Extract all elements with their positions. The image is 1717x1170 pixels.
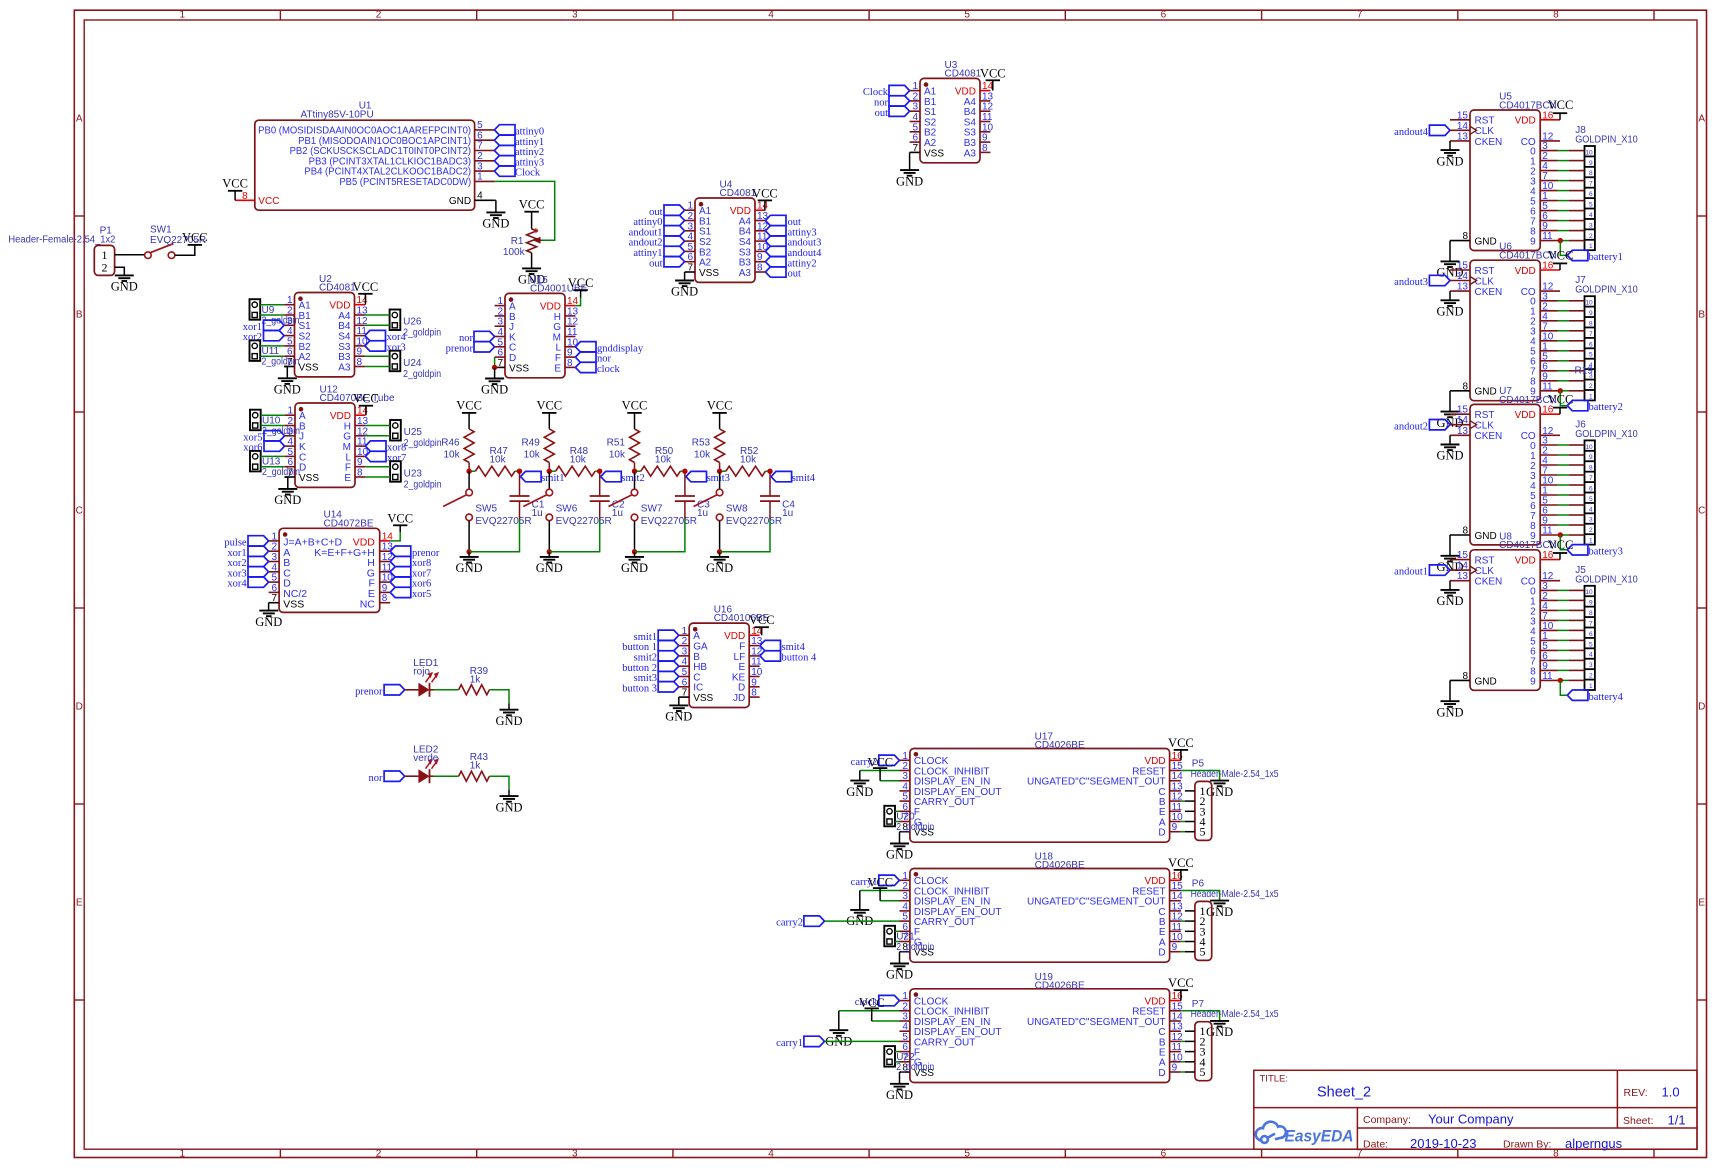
- svg-text:andout1: andout1: [1394, 567, 1428, 578]
- svg-text:U24: U24: [403, 358, 422, 369]
- svg-text:1/1: 1/1: [1668, 1112, 1686, 1127]
- svg-text:GND: GND: [621, 561, 648, 575]
- U6 pin 16 VDD: [1540, 269, 1560, 271]
- U1 pin 3 PB4: [475, 170, 495, 172]
- U1 pin 7 PB2: [475, 150, 495, 152]
- U5 output 1 pin 2 wire to J8: [1540, 160, 1557, 162]
- wire U12 VSS to ground: [285, 477, 288, 489]
- svg-text:battery3: battery3: [1589, 546, 1623, 557]
- svg-text:C: C: [76, 506, 83, 517]
- wire U17 to P5 pin 4: [1181, 821, 1185, 823]
- power VCC U5: [1559, 113, 1561, 120]
- svg-text:R53: R53: [692, 438, 711, 449]
- net flag xor6: [264, 441, 285, 451]
- svg-text:GND: GND: [706, 561, 733, 575]
- svg-text:CKEN: CKEN: [1475, 577, 1503, 588]
- net flag andout1: [1429, 565, 1450, 575]
- ground U19 RESET: [1210, 1020, 1229, 1022]
- junction node B: [597, 469, 602, 474]
- svg-text:GOLDPIN_X10: GOLDPIN_X10: [1575, 574, 1638, 585]
- junction gnd: [632, 549, 637, 554]
- svg-text:9: 9: [1589, 310, 1593, 317]
- net flag xor4 U14: [248, 577, 269, 587]
- svg-text:GND: GND: [456, 561, 483, 575]
- U7 output 4 pin 10 wire to J6: [1540, 484, 1557, 486]
- svg-text:VCC: VCC: [1548, 538, 1574, 552]
- svg-text:4: 4: [768, 10, 774, 21]
- svg-text:battery4: battery4: [1589, 692, 1624, 703]
- svg-text:10: 10: [1585, 300, 1593, 307]
- U5 output 7 pin 6 wire to J8: [1540, 220, 1557, 222]
- IC U8 CD4017BCN: [1470, 550, 1540, 691]
- IC U4 CD4081: [695, 198, 755, 282]
- IC U17 CD4026BE: [910, 749, 1170, 843]
- svg-text:8: 8: [751, 688, 757, 699]
- svg-text:Header-Female-2.54_1x2: Header-Female-2.54_1x2: [8, 235, 115, 246]
- power VCC U16: [761, 627, 763, 635]
- svg-text:8: 8: [1462, 381, 1468, 392]
- svg-text:8: 8: [357, 468, 363, 479]
- svg-text:VSS: VSS: [693, 693, 713, 704]
- ground U2: [278, 377, 297, 379]
- U8 output 7 pin 6 wire to J5: [1540, 659, 1557, 661]
- wire U18 RESET to ground: [1181, 891, 1220, 901]
- wire capacitor to ground: [720, 519, 770, 552]
- connector U13 2_goldpin: [250, 451, 261, 472]
- junction battery U7: [1558, 532, 1563, 537]
- svg-text:carry2: carry2: [776, 918, 803, 929]
- svg-text:8: 8: [1553, 1148, 1559, 1159]
- svg-text:3: 3: [1589, 662, 1593, 669]
- svg-text:CD4081: CD4081: [945, 68, 982, 79]
- svg-text:3: 3: [1589, 222, 1593, 229]
- svg-text:13: 13: [1457, 426, 1469, 437]
- svg-text:out: out: [788, 269, 802, 280]
- resistor R53 10k: [715, 429, 725, 463]
- svg-text:5: 5: [1589, 202, 1593, 209]
- ground U19 pin2: [829, 1029, 848, 1031]
- net flag clock: [575, 362, 596, 372]
- IC U16 CD40106BE: [689, 623, 749, 707]
- wire U19 to P7 pin 5: [1181, 1071, 1185, 1073]
- svg-text:VCC: VCC: [1548, 98, 1574, 112]
- IC U12 CD4070BE: [295, 403, 355, 487]
- net flag carry2 U17 clock: [879, 755, 900, 765]
- connector U24 2_goldpin: [390, 351, 401, 372]
- svg-text:Your Company: Your Company: [1428, 1111, 1514, 1126]
- svg-text:6: 6: [1589, 631, 1593, 638]
- net flag attiny0: [494, 125, 515, 135]
- svg-text:15: 15: [1457, 550, 1469, 561]
- svg-text:smit4: smit4: [792, 473, 816, 484]
- net flag attiny3: [494, 156, 515, 166]
- svg-text:D: D: [1158, 828, 1165, 839]
- svg-text:xor2: xor2: [243, 332, 262, 343]
- svg-text:2: 2: [1589, 527, 1593, 534]
- wire U13 to U12: [261, 455, 285, 457]
- net flag Clock: [494, 166, 515, 176]
- svg-text:CLK: CLK: [1475, 276, 1495, 287]
- svg-text:EVQ22705R: EVQ22705R: [556, 516, 612, 527]
- svg-text:8: 8: [1589, 610, 1593, 617]
- svg-text:GND: GND: [886, 1088, 913, 1102]
- wire switch to ground: [719, 521, 721, 552]
- ground U17 pin2: [850, 780, 869, 782]
- U5 output 6 pin 5 wire to J8: [1540, 210, 1557, 212]
- net flag out U3: [889, 106, 910, 116]
- svg-text:10k: 10k: [655, 455, 672, 466]
- wire U17 to P5 pin 5: [1181, 831, 1185, 833]
- svg-text:EVQ22705R: EVQ22705R: [475, 516, 531, 527]
- svg-text:A: A: [1698, 114, 1705, 125]
- power VCC U19 VDD: [1180, 990, 1182, 1000]
- wire U6 pin8 to ground: [1449, 391, 1451, 412]
- U6 output 2 pin 4 wire to J7: [1540, 320, 1557, 322]
- U5 pin 14 CLK: [1450, 129, 1470, 131]
- svg-text:prenor: prenor: [446, 343, 474, 354]
- resistor R46 10k: [464, 429, 474, 463]
- svg-text:RST: RST: [1475, 410, 1495, 421]
- svg-text:clock: clock: [597, 364, 620, 375]
- wire U18 VSS to ground: [899, 952, 901, 964]
- svg-text:9: 9: [1172, 1063, 1178, 1074]
- net flag smit1 U16: [658, 630, 679, 640]
- svg-text:andout2: andout2: [1394, 421, 1428, 432]
- wire U17 RESET to ground: [1181, 771, 1220, 781]
- svg-text:Header-Male-2.54_1x5: Header-Male-2.54_1x5: [1191, 1009, 1279, 1020]
- wire P1 pin1 to SW1: [115, 254, 145, 256]
- ground U8 CKEN: [1441, 589, 1460, 591]
- svg-text:7: 7: [1589, 475, 1593, 482]
- svg-text:Header-Male-2.54_1x5: Header-Male-2.54_1x5: [1191, 769, 1279, 780]
- wire U15 VDD to VCC: [575, 298, 580, 306]
- net flag xor1: [264, 320, 285, 330]
- U5 pin 13 CKEN: [1450, 140, 1470, 142]
- wire carry out: [825, 1040, 900, 1042]
- svg-text:7: 7: [1589, 331, 1593, 338]
- ground cell 2: [540, 556, 559, 558]
- ground U3: [900, 169, 919, 171]
- wire U19 to P7 pin 4: [1181, 1061, 1185, 1063]
- svg-text:6: 6: [1589, 341, 1593, 348]
- U6 output 0 pin 3 wire to J7: [1540, 300, 1557, 302]
- net flag clock U19 clock: [879, 995, 900, 1005]
- net flag smit1: [521, 471, 542, 481]
- net flag smit4: [771, 471, 792, 481]
- wire U9 to U2: [260, 304, 284, 306]
- svg-text:7: 7: [1357, 10, 1363, 21]
- U8 pin 13 CKEN: [1450, 580, 1470, 582]
- wire U14 VSS to ground: [268, 603, 270, 611]
- resistor R51 10k: [630, 429, 640, 463]
- svg-text:1: 1: [1589, 683, 1593, 690]
- U6 output 5 pin 1 wire to J7: [1540, 350, 1557, 352]
- wire U2 to U24: [365, 355, 390, 357]
- svg-text:5: 5: [1200, 825, 1206, 839]
- connector U20 2_goldpin: [884, 806, 895, 827]
- svg-text:9: 9: [1589, 160, 1593, 167]
- svg-text:2: 2: [102, 261, 108, 275]
- svg-text:VSS: VSS: [699, 268, 719, 279]
- svg-text:2_goldpin: 2_goldpin: [896, 1062, 934, 1073]
- wire SW1 to VCC: [175, 245, 195, 255]
- svg-text:GND: GND: [482, 217, 509, 231]
- U8 output 5 pin 1 wire to J5: [1540, 639, 1557, 641]
- connector U21 2_goldpin: [884, 926, 895, 947]
- wire U19 pin2 to ground: [839, 1010, 900, 1012]
- svg-text:GND: GND: [1206, 785, 1233, 799]
- ground cell 3: [625, 556, 644, 558]
- svg-text:E: E: [76, 898, 83, 909]
- ground R1: [522, 267, 541, 269]
- wire LED to resistor: [434, 775, 459, 777]
- U6 output 8 pin 9 wire to J7: [1540, 380, 1557, 382]
- power VCC U18 pin3: [873, 887, 887, 889]
- svg-text:1: 1: [1589, 393, 1593, 400]
- svg-text:UNGATED"C"SEGMENT_OUT: UNGATED"C"SEGMENT_OUT: [1027, 897, 1166, 908]
- U6 pin 14 CLK: [1450, 280, 1470, 282]
- svg-text:2019-10-23: 2019-10-23: [1410, 1136, 1477, 1151]
- net flag andout4 U4 right: [765, 246, 786, 256]
- svg-text:1: 1: [180, 10, 186, 21]
- svg-text:9: 9: [1589, 454, 1593, 461]
- wire U19 to P7 pin 1: [1185, 1030, 1195, 1032]
- wire U1 GND: [494, 199, 496, 201]
- wire U20: [895, 810, 900, 812]
- svg-text:1: 1: [1589, 243, 1593, 250]
- svg-text:5: 5: [1589, 641, 1593, 648]
- net flag attiny1 U4 left: [664, 246, 685, 256]
- svg-text:10k: 10k: [609, 450, 626, 461]
- svg-text:R51: R51: [607, 438, 626, 449]
- svg-text:UNGATED"C"SEGMENT_OUT: UNGATED"C"SEGMENT_OUT: [1027, 777, 1166, 788]
- svg-text:11: 11: [1542, 671, 1553, 682]
- svg-text:GND: GND: [886, 968, 913, 982]
- power VCC U17 pin3: [873, 767, 887, 769]
- svg-text:8: 8: [1462, 671, 1468, 682]
- wire U19 pin3 to VCC: [872, 1020, 900, 1022]
- U7 output 2 pin 4 wire to J6: [1540, 464, 1557, 466]
- svg-text:4: 4: [1589, 652, 1593, 659]
- svg-text:alperngus: alperngus: [1565, 1136, 1623, 1151]
- resistor R50 10k: [635, 470, 641, 472]
- svg-text:5: 5: [1200, 945, 1206, 959]
- svg-text:xor4: xor4: [227, 579, 247, 590]
- IC U5 CD4017BCN: [1470, 110, 1540, 251]
- svg-text:VDD: VDD: [1515, 556, 1536, 567]
- svg-text:10k: 10k: [740, 455, 757, 466]
- wire U16 VSS to ground: [678, 697, 680, 705]
- U8 output 9 pin 11 wire to J5: [1540, 679, 1557, 681]
- svg-text:1u: 1u: [782, 508, 793, 519]
- svg-text:1: 1: [1589, 538, 1593, 545]
- junction gnd: [547, 549, 552, 554]
- svg-text:U26: U26: [403, 317, 422, 328]
- resistor R47 10k: [469, 470, 475, 472]
- ground U14: [259, 610, 278, 612]
- IC U18 CD4026BE: [910, 869, 1170, 963]
- wire U7 pin8 to ground: [1449, 535, 1451, 556]
- junction node B: [517, 469, 522, 474]
- wire switch to ground: [634, 521, 636, 552]
- svg-text:3: 3: [572, 1148, 578, 1159]
- svg-text:Sheet_2: Sheet_2: [1317, 1085, 1371, 1101]
- svg-text:E: E: [554, 363, 561, 374]
- net flag prenor: [384, 685, 405, 695]
- svg-text:U25: U25: [404, 427, 423, 438]
- wire U22: [895, 1051, 900, 1053]
- svg-text:K=E+F+G+H: K=E+F+G+H: [314, 547, 375, 559]
- junction U15: [492, 365, 497, 370]
- capacitor C1 1u: [519, 471, 521, 496]
- svg-text:10k: 10k: [490, 455, 507, 466]
- svg-text:battery1: battery1: [1589, 252, 1623, 263]
- wire VCC to resistor: [548, 413, 550, 429]
- svg-text:2: 2: [1589, 233, 1593, 240]
- svg-text:Clock: Clock: [515, 168, 541, 179]
- svg-text:GOLDPIN_X10: GOLDPIN_X10: [1575, 429, 1638, 440]
- svg-text:VCC: VCC: [707, 399, 733, 413]
- net flag carry1 carry out: [804, 1036, 825, 1046]
- wire U4 VSS to ground: [684, 272, 686, 281]
- IC U1 ATtiny85V-10PU: [255, 120, 475, 210]
- svg-text:14: 14: [1457, 271, 1469, 282]
- svg-text:CKEN: CKEN: [1475, 287, 1503, 298]
- junction gnd: [717, 549, 722, 554]
- wire U19 VSS to ground: [899, 1072, 901, 1084]
- svg-text:SW5: SW5: [475, 504, 497, 515]
- net flag xor7 U14: [390, 567, 411, 577]
- U6 output 9 pin 11 wire to J7: [1540, 390, 1557, 392]
- wire U15 pin6 to VSS: [494, 357, 496, 367]
- svg-text:1u: 1u: [697, 508, 708, 519]
- svg-text:5: 5: [1200, 1065, 1206, 1079]
- svg-text:3: 3: [1589, 517, 1593, 524]
- wire resistor to ground: [489, 776, 509, 790]
- U8 output 6 pin 5 wire to J5: [1540, 649, 1557, 651]
- svg-text:VSS: VSS: [509, 363, 529, 374]
- wire U5 pin8 to ground: [1449, 241, 1451, 262]
- svg-text:D: D: [1698, 702, 1705, 713]
- junction gnd: [466, 549, 471, 554]
- U1 pin 6 PB1: [475, 139, 495, 141]
- svg-text:GND: GND: [274, 493, 301, 507]
- svg-text:1k: 1k: [470, 674, 482, 685]
- svg-text:GND: GND: [274, 383, 301, 397]
- svg-text:4: 4: [477, 191, 483, 202]
- svg-text:1u: 1u: [612, 508, 623, 519]
- svg-text:7: 7: [1589, 620, 1593, 627]
- svg-text:VCC: VCC: [519, 198, 545, 212]
- svg-text:2_goldpin: 2_goldpin: [404, 479, 442, 490]
- connector U11 2_goldpin: [250, 340, 261, 361]
- LED LED1 rojo: [418, 683, 429, 697]
- wire VCC to resistor: [634, 413, 636, 429]
- U7 pin 14 CLK: [1450, 424, 1470, 426]
- net flag attiny3 U4 right: [765, 226, 786, 236]
- wire capacitor to ground: [635, 519, 685, 552]
- wire VCC to resistor: [468, 413, 470, 429]
- connector P7 Header-Male-2.54_1x5: [1195, 1022, 1212, 1081]
- wire flag to LED: [405, 689, 419, 691]
- ground U15: [485, 378, 504, 380]
- svg-text:14: 14: [1457, 415, 1469, 426]
- svg-text:10: 10: [1585, 589, 1593, 596]
- svg-text:7: 7: [272, 593, 278, 604]
- svg-text:verde: verde: [413, 753, 438, 764]
- net flag out U4 right: [765, 267, 786, 277]
- ground U1 pin4: [486, 211, 505, 213]
- U6 output 3 pin 7 wire to J7: [1540, 330, 1557, 332]
- svg-text:9: 9: [1172, 822, 1178, 833]
- svg-text:VSS: VSS: [283, 598, 304, 610]
- svg-text:VCC: VCC: [867, 756, 893, 770]
- svg-text:8: 8: [357, 357, 363, 368]
- wire U17 VSS to ground: [899, 832, 901, 844]
- ground U18 VSS: [890, 963, 909, 965]
- svg-text:8: 8: [1589, 320, 1593, 327]
- net flag button 2 U16: [658, 661, 679, 671]
- net flag nor U15: [474, 331, 495, 341]
- connector U22 2_goldpin: [884, 1046, 895, 1067]
- svg-text:VSS: VSS: [299, 473, 319, 484]
- svg-text:VCC: VCC: [353, 392, 379, 406]
- wire U17 to P5 pin 1: [1185, 790, 1195, 792]
- net flag xor1 U14: [248, 546, 269, 556]
- U5 output 5 pin 1 wire to J8: [1540, 200, 1557, 202]
- svg-text:5: 5: [964, 1148, 970, 1159]
- svg-text:11: 11: [1542, 231, 1553, 242]
- IC U3 CD4081: [920, 78, 980, 162]
- wire U17 to P5 pin 3: [1185, 810, 1195, 812]
- net flag prenor U14: [390, 546, 411, 556]
- U1 pin 5 PB0: [475, 129, 495, 131]
- svg-text:CLK: CLK: [1475, 421, 1495, 432]
- svg-text:andout3: andout3: [1394, 277, 1428, 288]
- svg-text:CD4081: CD4081: [720, 188, 757, 199]
- svg-text:CKEN: CKEN: [1475, 137, 1503, 148]
- svg-text:xor6: xor6: [243, 443, 262, 454]
- svg-text:D: D: [76, 702, 83, 713]
- svg-text:14: 14: [1457, 561, 1469, 572]
- svg-text:ATtiny85V-10PU: ATtiny85V-10PU: [301, 109, 374, 120]
- svg-text:VCC: VCC: [859, 996, 885, 1010]
- wire U19 to P7 pin 2: [1181, 1040, 1185, 1042]
- svg-text:GND: GND: [1206, 1025, 1233, 1039]
- ground U4: [675, 280, 694, 282]
- svg-text:4: 4: [768, 1148, 774, 1159]
- svg-text:GND: GND: [495, 800, 522, 814]
- svg-text:VSS: VSS: [299, 362, 319, 373]
- svg-text:2_goldpin: 2_goldpin: [896, 822, 934, 833]
- svg-text:GND: GND: [1475, 237, 1497, 248]
- net flag battery1: [1567, 250, 1588, 260]
- svg-text:8: 8: [1553, 10, 1559, 21]
- svg-text:6: 6: [1589, 485, 1593, 492]
- svg-text:C: C: [1698, 506, 1705, 517]
- wire R1 to ground: [531, 253, 533, 269]
- net flag smit3: [686, 471, 707, 481]
- wire resistor to ground: [489, 690, 509, 704]
- U5 pin 12 CO: [1540, 140, 1560, 142]
- net flag andout2 U4 left: [664, 236, 685, 246]
- wire U2 VSS to ground: [284, 367, 287, 379]
- net flag Clock U3: [889, 85, 910, 95]
- svg-text:nor: nor: [369, 773, 384, 784]
- U8 output 2 pin 4 wire to J5: [1540, 609, 1557, 611]
- svg-text:14: 14: [1457, 121, 1469, 132]
- U8 output 0 pin 3 wire to J5: [1540, 589, 1557, 591]
